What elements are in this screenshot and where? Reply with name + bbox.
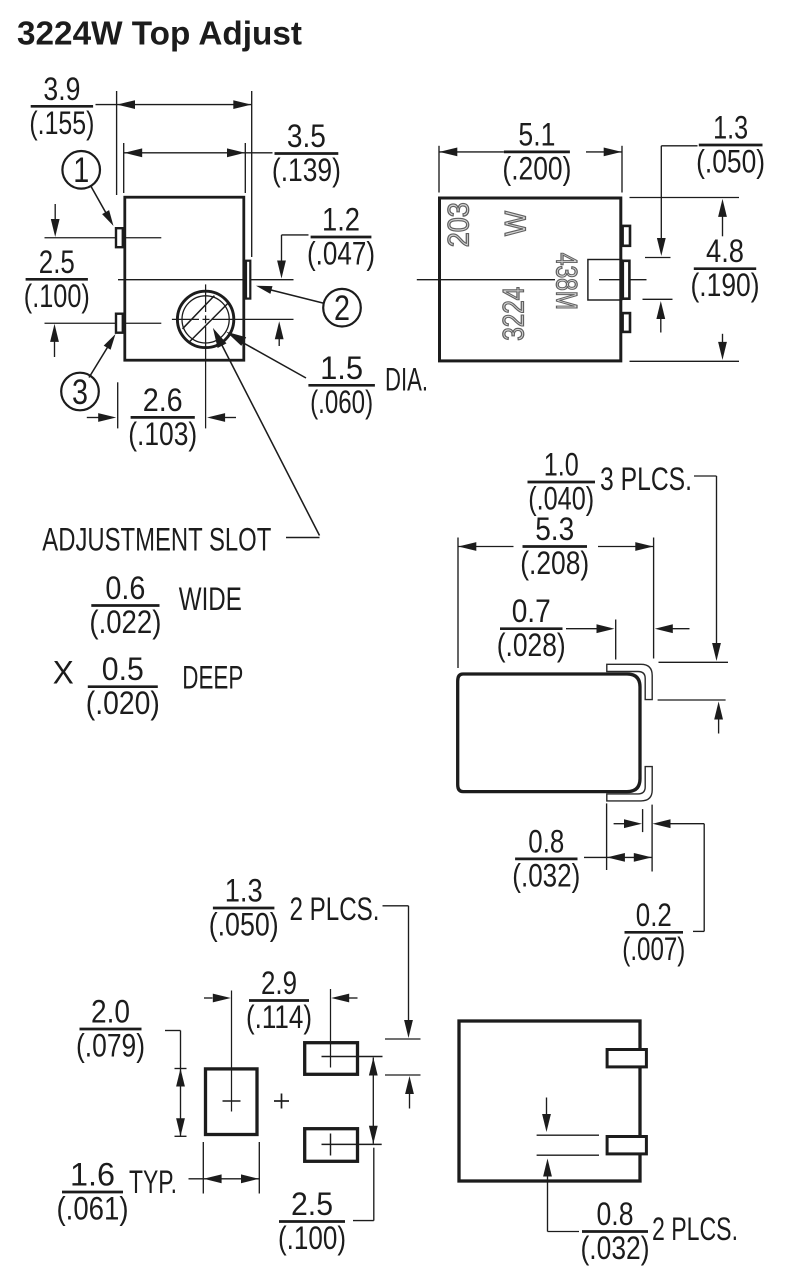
- dim 2.0 extension ticks: [175, 1069, 187, 1137]
- svg-text:3.9: 3.9: [43, 71, 80, 107]
- svg-text:203: 203: [443, 202, 476, 247]
- 3 PLCS. label: [600, 461, 692, 497]
- dim 2.5 line and arrows: [369, 1058, 378, 1144]
- svg-text:1: 1: [73, 151, 89, 190]
- slot depth label: [86, 651, 160, 721]
- svg-text:2.0: 2.0: [91, 994, 130, 1030]
- svg-text:1.3: 1.3: [225, 873, 263, 909]
- top view parting line: [118, 279, 294, 281]
- svg-text:2 PLCS.: 2 PLCS.: [652, 1211, 738, 1247]
- svg-text:3224W Top Adjust: 3224W Top Adjust: [17, 15, 302, 52]
- center plus mark: [274, 1094, 289, 1109]
- svg-text:(.032): (.032): [512, 857, 580, 893]
- svg-text:1.0: 1.0: [544, 447, 579, 483]
- dim 3.5 label: [272, 118, 341, 188]
- dim 0.7 extension line: [615, 620, 617, 660]
- dim 2.9 label: [246, 965, 312, 1035]
- dim 2.5 label: [24, 244, 90, 314]
- dim 0.8 up arrow and leader: [543, 1159, 579, 1232]
- dim 1.2 label: [307, 202, 375, 272]
- dim 3.9 line and arrows: [96, 100, 252, 109]
- svg-text:(.032): (.032): [581, 1230, 650, 1266]
- svg-text:WIDE: WIDE: [179, 581, 242, 617]
- dim 1.3 extension lines: [643, 258, 673, 300]
- top view body: [125, 197, 244, 360]
- svg-text:ADJUSTMENT SLOT: ADJUSTMENT SLOT: [42, 521, 271, 557]
- svg-text:4.8: 4.8: [706, 233, 744, 269]
- svg-text:0.8: 0.8: [597, 1196, 634, 1232]
- pin 1 centerline: [45, 237, 162, 239]
- bottom clip: [607, 767, 652, 801]
- svg-text:5.1: 5.1: [518, 116, 555, 152]
- dim 4.8 extension lines: [630, 198, 740, 362]
- dim 0.8 label (bottom): [581, 1196, 650, 1266]
- svg-text:3224: 3224: [498, 287, 531, 341]
- dim 4.8 label: [691, 233, 760, 303]
- dim 1.6 label: [57, 1157, 129, 1227]
- svg-text:(.022): (.022): [89, 604, 161, 640]
- svg-text:(.028): (.028): [497, 627, 566, 663]
- clip side view body: [458, 674, 640, 792]
- svg-text:2.6: 2.6: [143, 382, 183, 418]
- dim 0.2 label: [622, 897, 685, 967]
- X label: [53, 654, 74, 690]
- svg-text:(.100): (.100): [278, 1220, 346, 1256]
- dim 0.8 label: [512, 823, 580, 893]
- svg-text:438M: 438M: [550, 253, 583, 310]
- svg-text:1.5: 1.5: [320, 350, 363, 386]
- dim 0.7 arrows: [566, 624, 690, 633]
- svg-text:DEEP: DEEP: [182, 660, 243, 696]
- dim 1.2 bracket and arrow: [277, 235, 308, 279]
- left pad: [206, 1069, 258, 1135]
- svg-text:(.200): (.200): [502, 150, 571, 186]
- dim 1.0 extension lines: [658, 662, 728, 700]
- bottom view pin top: [607, 1050, 646, 1067]
- svg-text:(.079): (.079): [76, 1028, 145, 1064]
- adjustment screw outer circle: [177, 291, 233, 347]
- dim 5.1 line and arrows: [439, 148, 622, 157]
- dim 1.0 bracket and down arrow: [694, 476, 721, 661]
- svg-text:2.5: 2.5: [291, 1186, 333, 1222]
- ADJUSTMENT SLOT label: [42, 521, 271, 557]
- svg-text:0.6: 0.6: [105, 570, 145, 606]
- svg-text:(.190): (.190): [691, 267, 760, 303]
- callout 3 leader: [89, 334, 116, 378]
- dim 1.5 label: [308, 350, 375, 420]
- dim 5.3 line and arrows: [458, 542, 654, 551]
- dim 3.9 label: [29, 71, 94, 141]
- dim 2.5 down arrow: [51, 204, 60, 237]
- side view pin bottom: [623, 313, 630, 332]
- svg-text:2: 2: [334, 289, 350, 328]
- slot width label: [89, 570, 161, 640]
- svg-text:5.3: 5.3: [535, 511, 574, 547]
- dim 2.6 label: [128, 382, 197, 452]
- marking 203: [443, 202, 476, 247]
- svg-text:TYP.: TYP.: [129, 1164, 177, 1200]
- 2 PLCS. label (bottom): [652, 1211, 738, 1247]
- screw vertical centerline: [205, 284, 207, 428]
- top clip: [607, 664, 652, 699]
- svg-text:(.060): (.060): [310, 384, 373, 420]
- dim 3.9 extension lines: [117, 91, 252, 257]
- dim 4.8 down arrow: [718, 334, 727, 360]
- svg-text:0.5: 0.5: [102, 651, 144, 687]
- svg-text:3.5: 3.5: [287, 118, 326, 154]
- svg-text:(.208): (.208): [520, 545, 589, 581]
- dim 0.2 inner extension line: [642, 809, 644, 832]
- dim 4.8 up arrow: [718, 199, 727, 236]
- svg-text:(.050): (.050): [696, 144, 765, 180]
- left pad cross: [223, 991, 241, 1112]
- dim 5.1 label: [502, 116, 571, 186]
- svg-text:(.047): (.047): [307, 236, 375, 272]
- svg-text:DIA.: DIA.: [385, 362, 428, 398]
- svg-text:0.8: 0.8: [528, 823, 564, 859]
- svg-text:(.155): (.155): [29, 105, 94, 141]
- dim 1.0 up arrow: [714, 702, 723, 734]
- dim 1.3 up arrow: [656, 301, 665, 333]
- 2 PLCS. label (pads): [290, 891, 380, 927]
- dim 2.6 arrows: [87, 413, 236, 422]
- TYP. label: [129, 1164, 177, 1200]
- svg-text:(.114): (.114): [246, 999, 312, 1035]
- pin 1 (left upper): [116, 228, 123, 247]
- svg-text:(.100): (.100): [24, 278, 90, 314]
- dim 2.5 bracket: [353, 1148, 374, 1221]
- callout 2 leader: [256, 286, 324, 304]
- dim 1.3 up arrow: [405, 1076, 414, 1109]
- svg-text:(.020): (.020): [86, 685, 160, 721]
- svg-text:(.050): (.050): [209, 907, 279, 943]
- dim 5.3 extension lines: [458, 538, 654, 669]
- svg-text:0.7: 0.7: [512, 593, 551, 629]
- dim 2.0 label: [76, 994, 145, 1064]
- pin thickness lines: [537, 1135, 599, 1155]
- pin 3 (left lower): [116, 314, 123, 333]
- DIA. label: [385, 362, 428, 398]
- callout circle 1: [62, 151, 100, 190]
- side view body: [440, 198, 621, 361]
- adjustment slot leader: [213, 328, 320, 538]
- svg-text:2.5: 2.5: [39, 244, 75, 280]
- dim 3.5 extension lines: [124, 143, 246, 193]
- WIDE label: [179, 581, 242, 617]
- side view pin top: [623, 226, 630, 246]
- side view pin middle: [623, 261, 630, 299]
- svg-text:X: X: [53, 654, 74, 690]
- dim 1.5 leader: [226, 332, 306, 378]
- dim 2.5 label: [278, 1186, 346, 1256]
- dim 2.0 arrows: [176, 1069, 185, 1137]
- dim 1.3 label: [209, 873, 279, 943]
- dim 5.1 extension lines: [439, 146, 622, 193]
- dim 0.2 bracket: [693, 824, 704, 932]
- dim 0.8 extension lines: [607, 803, 653, 871]
- svg-text:1.6: 1.6: [70, 1157, 115, 1193]
- svg-text:(.061): (.061): [57, 1191, 129, 1227]
- svg-text:(.139): (.139): [272, 152, 341, 188]
- DEEP label: [182, 660, 243, 696]
- svg-text:3: 3: [72, 373, 88, 412]
- dim 1.3 label: [696, 110, 765, 180]
- dim 0.8 arrows: [584, 853, 652, 862]
- callout 1 leader: [91, 186, 114, 227]
- svg-text:1.3: 1.3: [713, 110, 748, 146]
- callout circle 2: [323, 289, 361, 328]
- marking 3224: [498, 287, 531, 341]
- dim 1.3 bracket and down arrow: [383, 906, 413, 1038]
- dim 1.6 arrows: [189, 1174, 260, 1183]
- dim 3.5 line and arrows: [124, 148, 273, 157]
- pin 2 (right): [246, 261, 250, 299]
- dim 1.2 up arrow: [275, 321, 284, 346]
- callout circle 3: [61, 373, 99, 412]
- dim 1.6 extension lines: [203, 1142, 259, 1194]
- dim 0.7 label: [497, 593, 566, 663]
- svg-text:0.2: 0.2: [636, 897, 672, 933]
- right bottom pad: [305, 1129, 358, 1162]
- marking W: [500, 210, 533, 236]
- pin 3 centerline: [45, 322, 162, 324]
- right bottom pad cross: [322, 1134, 382, 1156]
- dim 0.2 arrows: [614, 819, 705, 828]
- svg-text:2 PLCS.: 2 PLCS.: [290, 891, 380, 927]
- adjustment slot lines: [183, 296, 229, 342]
- dim 1.3 bracket and down arrow: [657, 146, 698, 256]
- screw horizontal centerline: [172, 318, 294, 320]
- dim 2.0 bracket: [165, 1031, 181, 1069]
- right top pad: [305, 1043, 358, 1075]
- bottom view body: [459, 1021, 640, 1181]
- dim 2.6 extension line: [117, 382, 119, 428]
- right top pad cross: [322, 989, 383, 1068]
- wiper notch rectangle: [588, 260, 622, 301]
- marking 438M: [550, 253, 583, 310]
- svg-text:W: W: [500, 210, 533, 236]
- dim 1.0 label: [528, 447, 596, 517]
- svg-text:(.007): (.007): [622, 931, 685, 967]
- svg-text:(.103): (.103): [128, 416, 197, 452]
- adjustment screw inner circle: [182, 296, 229, 343]
- svg-text:3 PLCS.: 3 PLCS.: [600, 461, 692, 497]
- dim 2.5 up arrow: [50, 324, 59, 357]
- svg-text:1.2: 1.2: [322, 202, 360, 238]
- dim 0.8 down arrow: [542, 1098, 551, 1133]
- dim 5.3 label: [520, 511, 589, 581]
- bottom view pin bottom: [607, 1137, 646, 1154]
- side view centerline: [417, 279, 647, 281]
- svg-text:2.9: 2.9: [261, 965, 297, 1001]
- dim 1.3 extension lines: [385, 1039, 421, 1075]
- dim 2.9 arrows: [204, 994, 358, 1003]
- title 3224W Top Adjust: [17, 15, 302, 52]
